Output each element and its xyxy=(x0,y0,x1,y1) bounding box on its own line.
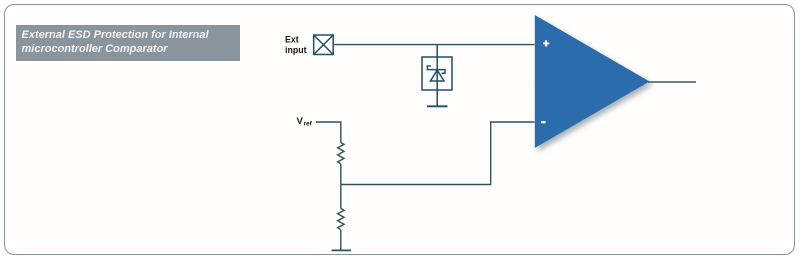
wire comparator output xyxy=(648,81,696,83)
wire Ext input to comparator + xyxy=(333,44,534,46)
pin - label xyxy=(541,121,546,123)
svg-text:ref: ref xyxy=(304,121,313,128)
wire junction down to ESD diode xyxy=(436,45,438,106)
svg-text:Ext: Ext xyxy=(285,35,299,45)
op-amp U1 comparator xyxy=(535,15,650,148)
title box xyxy=(16,25,240,61)
wire R2 to ground xyxy=(340,230,342,250)
ground (divider) xyxy=(332,249,352,251)
resistor R1 xyxy=(338,143,344,164)
svg-text:input: input xyxy=(285,45,307,55)
zener diode (TVS) xyxy=(427,66,445,81)
svg-text:V: V xyxy=(297,116,304,127)
ESD diode box D1 xyxy=(422,57,452,90)
resistor R2 xyxy=(338,208,344,229)
pin + label xyxy=(543,40,549,46)
pin symbol Ext input xyxy=(314,35,334,55)
wire Vref to divider xyxy=(316,122,341,143)
wire mid node to comparator - input xyxy=(341,122,535,185)
wire R1 to mid node xyxy=(340,164,342,209)
ground (ESD diode) xyxy=(427,105,448,107)
